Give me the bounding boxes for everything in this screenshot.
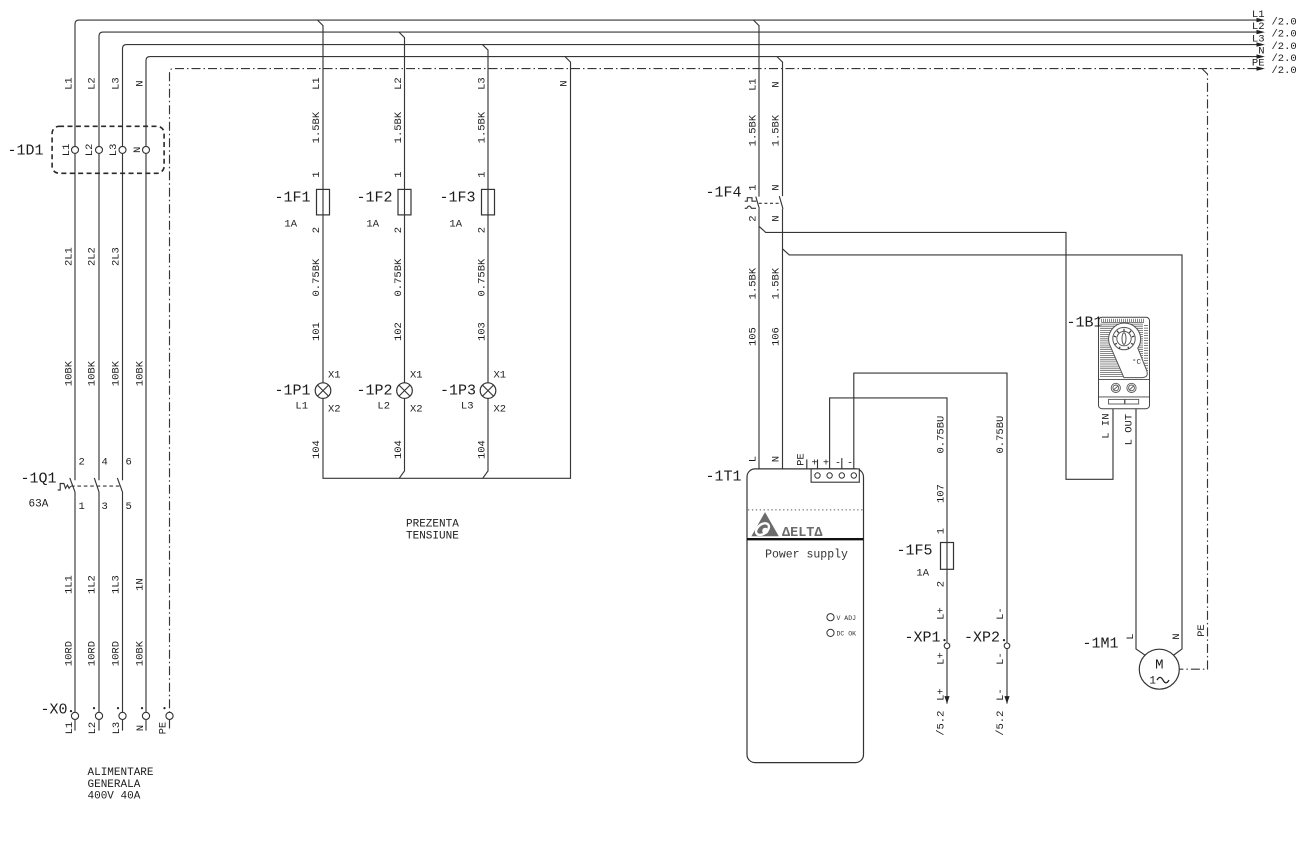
svg-text:2L1: 2L1 — [64, 247, 76, 266]
svg-text:L1: L1 — [61, 144, 73, 157]
svg-text:2L3: 2L3 — [111, 247, 123, 266]
trip symbol square bump — [745, 198, 757, 202]
svg-text:N: N — [132, 147, 144, 153]
terminal -X0:L3 — [111, 712, 126, 734]
svg-text:/2.0: /2.0 — [1272, 53, 1297, 65]
svg-text:1: 1 — [79, 501, 85, 513]
svg-text:104: 104 — [476, 440, 488, 459]
svg-text:M: M — [1155, 658, 1163, 674]
svg-text:10RD: 10RD — [111, 641, 123, 666]
svg-text:L2: L2 — [87, 77, 99, 90]
svg-text:106: 106 — [770, 327, 782, 346]
terminal -X0:N — [135, 712, 150, 731]
svg-text:GENERALA: GENERALA — [88, 779, 141, 791]
svg-text:0.75BU: 0.75BU — [995, 416, 1007, 454]
svg-text:2: 2 — [79, 457, 85, 469]
svg-text:L-: L- — [995, 607, 1007, 620]
node -1D1 pin N — [132, 146, 150, 153]
svg-text:L3: L3 — [461, 401, 474, 413]
blade pole 2 — [94, 478, 99, 492]
screws section — [1099, 378, 1150, 380]
svg-text:L2: L2 — [1252, 21, 1265, 33]
svg-text:-: - — [835, 459, 841, 470]
fuse -1F3 — [439, 189, 494, 230]
svg-text:4: 4 — [102, 457, 108, 469]
dotted line — [748, 509, 863, 511]
svg-text:1: 1 — [476, 171, 488, 177]
arrow to /5.2 — [995, 688, 1010, 736]
svg-text:1: 1 — [935, 528, 947, 534]
svg-text:-1F3: -1F3 — [439, 190, 475, 207]
wire -1F4 pole1 out to -1B1 feed — [759, 209, 1113, 480]
svg-text:2: 2 — [935, 581, 947, 587]
wire label 10RD x3 10BK — [64, 640, 147, 666]
svg-text:L3: L3 — [1252, 34, 1265, 46]
svg-text:L2: L2 — [377, 401, 390, 413]
PSU body — [747, 469, 864, 763]
svg-text:PE: PE — [796, 453, 808, 466]
wire bus L1 — [75, 20, 1257, 480]
svg-text:6: 6 — [126, 457, 132, 469]
svg-text:L1: L1 — [1252, 9, 1265, 21]
svg-text:L3: L3 — [111, 77, 123, 90]
wire PSU - to -XP2 — [854, 373, 1007, 703]
svg-text:L3: L3 — [108, 144, 120, 157]
svg-text:TENSIUNE: TENSIUNE — [406, 531, 459, 543]
svg-text:-1P2: -1P2 — [356, 383, 392, 400]
svg-text:°C: °C — [1132, 358, 1142, 367]
trip symbol — [58, 484, 71, 491]
svg-text:0.75BK: 0.75BK — [476, 258, 488, 297]
terminal strip -X0 — [40, 702, 165, 719]
terminal -X0:PE — [158, 712, 174, 734]
svg-text:/2.0: /2.0 — [1272, 17, 1297, 29]
svg-text:L3: L3 — [476, 77, 488, 90]
svg-text:103: 103 — [476, 322, 488, 341]
blade pole 3 — [117, 478, 122, 492]
svg-text:X1: X1 — [494, 370, 507, 382]
svg-text:/5.2: /5.2 — [995, 711, 1007, 736]
svg-text:1A: 1A — [916, 568, 929, 580]
DC OK — [827, 629, 834, 636]
svg-text:1N: 1N — [135, 578, 147, 591]
wire PSU + to -1F5 — [830, 398, 947, 704]
svg-text:-1Q1: -1Q1 — [20, 471, 56, 488]
terminal -XP2 — [964, 630, 1010, 649]
svg-text:104: 104 — [393, 440, 405, 459]
svg-text:L+: L+ — [935, 688, 947, 701]
V ADJ — [827, 614, 834, 621]
svg-text:-1B1: -1B1 — [1066, 315, 1102, 332]
svg-text:-1T1: -1T1 — [705, 469, 741, 486]
text ALIMENTARE GENERALA 400V 40A — [88, 767, 154, 803]
bottom section — [1099, 396, 1150, 398]
vent hatch — [1100, 324, 1143, 377]
svg-text:X2: X2 — [410, 404, 423, 416]
node -1D1 pin L2 — [84, 144, 103, 157]
svg-text:-1F4: -1F4 — [705, 185, 741, 202]
svg-text:DC OK: DC OK — [837, 631, 857, 638]
svg-text:0.75BU: 0.75BU — [935, 416, 947, 454]
svg-text:1.5BK: 1.5BK — [747, 267, 759, 299]
linkage dashed — [759, 202, 781, 204]
svg-text:-XP1: -XP1 — [904, 630, 940, 647]
svg-text:N: N — [1171, 633, 1183, 639]
wire drop L1 to -1F1 — [318, 20, 571, 478]
svg-text:1A: 1A — [284, 219, 297, 231]
svg-text:X2: X2 — [328, 404, 341, 416]
svg-text:2: 2 — [476, 227, 488, 233]
svg-text:1: 1 — [748, 184, 760, 190]
svg-text:/2.0: /2.0 — [1272, 41, 1297, 53]
node N bus arrow — [1257, 54, 1266, 58]
svg-text:X2: X2 — [494, 404, 507, 416]
svg-text:107: 107 — [935, 484, 947, 503]
svg-text:2: 2 — [311, 227, 323, 233]
fuse -1F1 — [274, 189, 329, 230]
node L1 bus arrow — [1257, 18, 1266, 22]
wire label 10BK x4 — [64, 360, 147, 386]
minus stub — [841, 458, 843, 469]
wire drop N to -1F4 — [777, 57, 783, 197]
svg-text:N: N — [771, 184, 783, 190]
node PE bus arrow — [1257, 66, 1266, 70]
fuse -1F2 — [356, 189, 411, 230]
wire bus PE dash-dot — [170, 69, 1257, 713]
svg-text:10RD: 10RD — [64, 641, 76, 666]
svg-text:X1: X1 — [410, 370, 423, 382]
svg-text:1.5BK: 1.5BK — [476, 111, 488, 143]
svg-text:2L2: 2L2 — [87, 247, 99, 266]
svg-text:/2.0: /2.0 — [1272, 65, 1297, 77]
svg-text:0.75BK: 0.75BK — [311, 258, 323, 297]
svg-text:1L3: 1L3 — [111, 575, 123, 594]
top serration — [1102, 319, 1144, 323]
shield band — [1109, 323, 1148, 378]
fuse -1F5 — [896, 543, 953, 580]
svg-text:400V 40A: 400V 40A — [88, 791, 141, 803]
svg-text:PE: PE — [158, 722, 170, 735]
wire L3 lower segment after -1Q1 — [122, 492, 124, 713]
svg-text:PE: PE — [1196, 624, 1208, 637]
svg-text:1.5BK: 1.5BK — [311, 111, 323, 143]
separator thick line — [747, 538, 864, 540]
svg-text:10BK: 10BK — [135, 640, 147, 666]
svg-text:-XP2: -XP2 — [964, 630, 1000, 647]
breaker -1Q1 — [20, 457, 131, 513]
wire L OUT from -1B1 to motor — [1136, 409, 1145, 656]
svg-text:L-: L- — [995, 688, 1007, 701]
wire -1F4 poleN out to motor N — [783, 209, 1183, 655]
svg-text:1.5BK: 1.5BK — [747, 114, 759, 146]
wire L1 lower segment after -1Q1 — [74, 492, 76, 713]
svg-text:N: N — [770, 81, 782, 87]
svg-text:L1: L1 — [64, 77, 76, 90]
svg-text:N: N — [771, 215, 783, 221]
svg-text:10BK: 10BK — [64, 360, 76, 386]
svg-text:-1F1: -1F1 — [274, 190, 310, 207]
wire drop L1 to -1F4 — [754, 20, 760, 197]
node L2 bus arrow — [1257, 30, 1266, 34]
wire bus L2 — [99, 32, 1257, 480]
svg-text:N: N — [135, 80, 147, 86]
svg-text:1.5BK: 1.5BK — [770, 267, 782, 299]
text PREZENTA TENSIUNE — [406, 519, 459, 543]
lamp -1P1 — [274, 370, 340, 416]
svg-text:L2: L2 — [87, 722, 99, 735]
svg-text:-1F2: -1F2 — [356, 190, 392, 207]
svg-text:0.75BK: 0.75BK — [393, 258, 405, 297]
wire drop L3 to -1F3 — [483, 45, 489, 479]
svg-text:63A: 63A — [29, 499, 49, 511]
svg-text:L: L — [1125, 633, 1137, 639]
wire bus L3 — [123, 45, 1257, 481]
svg-text:+: + — [823, 459, 829, 470]
svg-text:L1: L1 — [311, 77, 323, 90]
svg-text:L1: L1 — [64, 722, 76, 735]
svg-text:10BK: 10BK — [87, 360, 99, 386]
arrow to /5.2 — [935, 688, 949, 736]
lamp -1P2 — [356, 370, 422, 416]
node -1D1 pin L1 — [61, 144, 79, 157]
svg-text:L1: L1 — [295, 401, 308, 413]
linkage dashed — [71, 485, 121, 487]
blade pole N — [779, 196, 783, 209]
svg-text:1L1: 1L1 — [64, 575, 76, 594]
svg-text:102: 102 — [393, 322, 405, 341]
svg-text:2: 2 — [748, 215, 760, 221]
breaker -1F4 — [705, 184, 783, 221]
svg-text:1: 1 — [1149, 676, 1156, 688]
svg-text:10BK: 10BK — [111, 360, 123, 386]
svg-text:/5.2: /5.2 — [935, 711, 947, 736]
connector -1D1 dashed box — [52, 126, 164, 173]
wire drop L2 to -1F2 — [399, 32, 405, 478]
svg-text:Power supply: Power supply — [765, 549, 848, 562]
svg-text:-1P3: -1P3 — [440, 383, 476, 400]
svg-text:-1D1: -1D1 — [7, 143, 43, 160]
svg-text:104: 104 — [311, 440, 323, 459]
svg-text:L1: L1 — [747, 78, 759, 91]
svg-text:10BK: 10BK — [135, 360, 147, 386]
svg-text:N: N — [559, 80, 571, 86]
terminal -XP1 — [904, 630, 949, 649]
svg-text:V ADJ: V ADJ — [837, 615, 857, 622]
svg-text:L+: L+ — [935, 652, 947, 665]
svg-text:-: - — [847, 459, 853, 470]
svg-text:L: L — [748, 456, 760, 462]
DELTA logo triangle — [751, 512, 778, 536]
svg-text:L OUT: L OUT — [1124, 414, 1136, 446]
wire PE branch dash-dot — [1180, 69, 1208, 670]
svg-text:PE: PE — [1252, 58, 1265, 70]
svg-text:PREZENTA: PREZENTA — [406, 519, 459, 531]
terminal -X0:L1 — [64, 712, 79, 734]
svg-text:105: 105 — [747, 327, 759, 346]
svg-text:-X0: -X0 — [40, 702, 67, 719]
svg-text:1.5BK: 1.5BK — [770, 114, 782, 146]
svg-text:-1F5: -1F5 — [896, 543, 932, 560]
node L3 bus arrow — [1257, 42, 1266, 46]
svg-text:+: + — [812, 459, 818, 470]
svg-text:N: N — [135, 725, 147, 731]
trip symbol thermal bump — [745, 206, 756, 208]
svg-text:L2: L2 — [393, 77, 405, 90]
dial — [1113, 327, 1135, 349]
svg-text:3: 3 — [102, 501, 108, 513]
svg-text:101: 101 — [311, 322, 323, 341]
svg-text:1A: 1A — [449, 219, 462, 231]
svg-text:1A: 1A — [366, 219, 379, 231]
svg-text:1: 1 — [393, 171, 405, 177]
svg-text:L IN: L IN — [1101, 413, 1113, 438]
svg-text:L2: L2 — [84, 144, 96, 157]
svg-text:/2.0: /2.0 — [1272, 29, 1297, 41]
terminal strip — [811, 469, 859, 482]
terminal -X0:L2 — [87, 712, 103, 734]
motor -1M1 — [1082, 633, 1183, 689]
svg-text:L-: L- — [995, 652, 1007, 665]
svg-text:5: 5 — [126, 501, 132, 513]
svg-text:L+: L+ — [935, 607, 947, 620]
svg-text:-1M1: -1M1 — [1082, 636, 1118, 653]
svg-text:1: 1 — [311, 171, 323, 177]
svg-text:N: N — [1258, 46, 1264, 58]
PE stub — [806, 459, 808, 469]
svg-text:2: 2 — [393, 227, 405, 233]
wire bus N — [146, 57, 1257, 713]
lamp -1P3 — [440, 370, 506, 416]
wire L2 lower segment after -1Q1 — [98, 492, 100, 713]
blade pole 1 — [756, 197, 760, 209]
svg-text:L3: L3 — [111, 722, 123, 735]
right serration — [1144, 326, 1148, 371]
blade pole 1 — [70, 478, 75, 492]
svg-text:1L2: 1L2 — [87, 575, 99, 594]
svg-text:X1: X1 — [328, 370, 341, 382]
svg-text:10RD: 10RD — [87, 641, 99, 666]
svg-text:-1P1: -1P1 — [274, 383, 310, 400]
node -1D1 pin L3 — [108, 144, 126, 157]
svg-text:1.5BK: 1.5BK — [393, 111, 405, 143]
svg-text:ALIMENTARE: ALIMENTARE — [88, 767, 154, 779]
svg-text:N: N — [771, 456, 783, 462]
plus stub — [817, 459, 819, 469]
